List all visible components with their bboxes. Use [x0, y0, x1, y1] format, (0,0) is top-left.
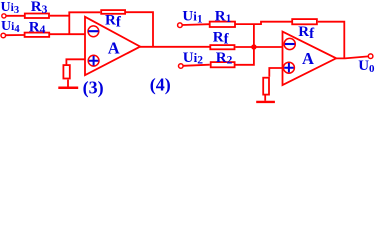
- wire Rf2 to U2 inverting input: [235, 46, 283, 48]
- wire vertical bus: [68, 12, 70, 34]
- terminal U0: [368, 54, 373, 59]
- ground (right): [256, 101, 275, 103]
- svg-text:A: A: [302, 49, 314, 68]
- svg-text:Rf: Rf: [298, 24, 315, 42]
- op-amp U2 triangle: [283, 32, 337, 85]
- op-amp U1 triangle: [85, 17, 140, 75]
- wire R4 to inverting input of U1: [50, 33, 85, 35]
- wire Ui3 to R3: [6, 15, 24, 17]
- wire R2 to junction: [236, 47, 254, 65]
- ground (left): [58, 86, 78, 89]
- resistor Rf1 (feedback of U1): [101, 10, 125, 14]
- wire resistor to ground (right): [264, 96, 266, 101]
- terminal Ui4: [1, 33, 6, 38]
- wire Rf3 to output vertical: [318, 22, 345, 59]
- wire U2 output to terminal: [336, 56, 368, 58]
- wire Rf1 to output vertical: [126, 12, 153, 47]
- op-amp U2 plus sign: [284, 63, 293, 72]
- terminal Ui1: [178, 23, 183, 28]
- wire non-inverting input of U1 to ground resistor: [66, 59, 85, 65]
- resistor R1: [210, 22, 235, 27]
- op-amp U2 inverting input circle: [284, 38, 295, 49]
- op-amp U2 minus sign: [285, 43, 295, 45]
- wire riser junction to R1 row: [253, 24, 255, 47]
- wire resistor to ground (left): [67, 80, 69, 87]
- resistor Rf3 (feedback of U2): [292, 19, 317, 24]
- resistor R5 (ground, left): [63, 65, 69, 78]
- wire Ui2 to R2: [183, 65, 210, 66]
- resistor R3: [25, 14, 49, 19]
- op-amp U1 non-inverting input circle: [88, 55, 99, 66]
- wire bus to Rf1: [68, 11, 100, 13]
- svg-text:(3): (3): [83, 77, 104, 98]
- resistor Rf2 (between stages): [210, 45, 234, 49]
- terminal Ui3: [2, 14, 6, 18]
- op-amp U2 non-inverting input circle: [283, 62, 294, 73]
- resistor R4: [25, 33, 50, 37]
- wire Ui1 to R1: [182, 23, 209, 26]
- wire Ui4 to R4: [6, 34, 25, 36]
- resistor R6 (ground, right): [263, 78, 269, 95]
- junction node dot: [251, 44, 256, 49]
- op-amp U1 minus sign: [88, 30, 98, 32]
- op-amp U1 inverting input circle: [88, 26, 99, 37]
- wire R3 to bus: [50, 15, 70, 17]
- wire R1 to feedback jog: [236, 22, 292, 24]
- resistor R2: [211, 62, 235, 67]
- svg-text:(4): (4): [150, 75, 171, 96]
- wire non-inverting input of U2 to ground resistor: [269, 68, 282, 77]
- svg-text:Rf: Rf: [105, 13, 122, 31]
- svg-text:A: A: [108, 39, 120, 58]
- op-amp U1 plus sign: [89, 56, 99, 66]
- wire U1 output to Rf2: [140, 46, 210, 48]
- terminal Ui2: [179, 64, 184, 69]
